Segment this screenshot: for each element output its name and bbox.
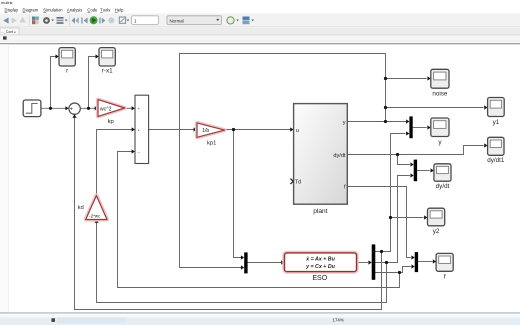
toolbar: mode dropdown "Normal" [167,16,222,25]
wire dy/dt branch down to mux M2 in1 [398,155,410,165]
svg-text:Normal: Normal [170,18,184,23]
svg-text:-2*wc: -2*wc [89,213,101,218]
svg-text:mulink: mulink [1,0,13,5]
wire z1 branch to scope y2 [391,217,424,219]
arrow into mux M2 in1 [410,162,413,166]
canvas bottom border [0,312,520,314]
toolbar icon: stop (disabled) [108,17,114,23]
step source block [23,100,41,117]
svg-text:wc^2: wc^2 [100,106,112,112]
svg-text:y = Cx + Du: y = Cx + Du [305,264,336,270]
wire mux M3 to scope f [418,261,432,263]
svg-text:kp1: kp1 [207,140,216,146]
wire plant y to mux M1 [347,121,406,123]
arrow into sum [65,106,68,110]
scope r-x1 [99,48,115,75]
arrow into mux M3 in1 [411,255,414,259]
arrow into ESO mux in1 [241,255,244,259]
wire branch to scope noise [386,78,427,80]
toolbar icon: run (green) [90,16,98,24]
arrow into scope dy/dt [431,168,434,172]
arrow into ESO mux in2 [241,265,244,269]
svg-text:dy/dt: dy/dt [333,153,346,159]
wire z1 down to w4 feedback to sum [75,118,382,310]
toolbar icon: refresh round + dropdown [227,17,234,24]
wire gain kp to add A1 [125,107,132,109]
svg-text:iagram: iagram [26,7,39,12]
arrow into scope y [427,125,430,129]
scope noise [431,69,449,97]
svg-text:imulation: imulation [46,7,63,12]
toolbar icon: step back [81,18,82,24]
arrow into scope r-x1 [96,54,99,58]
arrow into mux M3 in2 [411,264,414,268]
toolbar icon: model browser list + dropdown [57,17,64,19]
arrow into scope y1 [484,105,487,109]
svg-text:Td: Td [295,179,302,185]
svg-text:ẋ = Ax + Bu: ẋ = Ax + Bu [305,257,335,263]
scope y [431,118,449,146]
add block [135,95,149,163]
gain kd (-2*wc) [86,196,107,220]
wire mux M2 to scope dy/dt [417,170,429,172]
svg-text:ode: ode [91,7,99,12]
wire demux z3 out to mux M3 in2 [375,267,410,273]
svg-text:kd: kd [78,205,84,211]
svg-text:y1: y1 [493,119,500,126]
scope y2 [428,208,445,235]
status bar [0,313,520,325]
svg-text:plant: plant [313,208,327,215]
arrow into mux M1 in1 [406,119,409,123]
wire ESO mux to ESO [248,262,281,264]
mux M3 (f) [415,252,418,272]
svg-text:f: f [444,274,446,281]
toolbar icon: library (colored squares) [32,17,35,20]
arrow into scope f [433,259,436,263]
arrow into plant u [290,127,293,131]
demux ESO output [372,244,376,279]
svg-text:174%: 174% [333,317,344,322]
scope f [436,253,453,280]
svg-text:..._Cont: ..._Cont [1,30,13,34]
svg-text:y: y [343,120,346,126]
arrow into ESO [281,260,284,264]
arrow into add A3 [132,149,135,153]
arrow into mux M2 in2 [410,173,413,177]
arrow up into gain kd [94,220,98,223]
arrow into add A2 [132,127,135,131]
svg-text:ESO: ESO [312,275,327,282]
scope dy/dt [434,164,451,190]
toolbar icon: step forward [99,18,100,24]
wire gain kd up to add A2 [97,130,132,196]
svg-text:kp: kp [108,119,114,125]
wire z2 down to w3 feedback to gain kd [97,223,387,303]
wire u branch down to ESO mux in1 [234,130,241,258]
wire demux z1 out [375,134,405,252]
toolbar background [0,14,520,28]
mux M2 (dy/dt) [414,160,417,182]
wire step to sum [41,107,66,109]
arrow into scope y2 [424,215,427,219]
gain kp1 (1/b) [197,123,225,137]
wire demux z2 out to mux M2 in2 [375,176,409,263]
junction z1 branch [380,250,383,253]
wire branch to scope r-x1 [89,57,97,109]
svg-text:noise: noise [432,91,448,98]
mux M1 (y) [409,116,412,138]
junction y branch [384,120,387,123]
svg-text:dy/dt: dy/dt [436,183,450,190]
wire plant dy/dt to dy/dt1 jog [347,146,483,155]
svg-text:×: × [14,30,16,34]
arrow into scope noise [427,76,430,80]
wire branch to scope r [51,57,57,109]
junction y2 branch [389,216,392,219]
wire sum to gain kp [80,107,95,109]
wire add to gain kp1 [149,129,194,131]
breadcrumb bar [0,35,520,41]
junction z3 branch [398,271,401,274]
toolbar icon: forward (disabled) [12,17,17,23]
toolbar separator [69,16,71,26]
wire w2 riser to add A3 [118,152,132,288]
sum junction [69,103,80,114]
arrow into mux M1 in2 [406,131,409,135]
wire plant f to mux M3 in1 [347,187,410,258]
junction u branch [232,128,235,131]
arrow up into sum from w4 [72,114,76,117]
wire y riser with noise and y1 branches [180,54,386,268]
junction sum to r-x1 [87,107,90,110]
scope r [59,48,75,75]
scope y1 [488,98,505,126]
svg-text:y2: y2 [433,228,440,235]
status bar left glyph [52,318,55,322]
wire branch to scope y1 [386,107,484,109]
junction noise branch [384,77,387,80]
svg-text:ools: ools [103,7,111,12]
junction step to r [49,107,52,110]
svg-text:u: u [296,128,299,134]
junction dy/dt branch [396,153,399,156]
svg-text:isplay: isplay [8,7,19,12]
ESO state-space block [285,253,357,272]
toolbar icon: fast restart [72,17,76,23]
svg-text:1/b: 1/b [202,128,209,134]
wire z3 down to w2 feedback [118,273,400,288]
arrow into scope dy/dt1 [484,143,487,147]
canvas top border [0,43,520,45]
toolbar icon: configure gear + dropdown [43,17,50,24]
svg-text:r: r [66,68,68,75]
svg-text:r-x1: r-x1 [102,68,113,75]
toolbar icon: build (blue) + dropdown [243,17,250,20]
arrow into scope r [56,54,59,58]
toolbar icon: up (disabled) [19,17,25,22]
arrow into gain kp1 [194,127,197,131]
svg-text:dy/dt1: dy/dt1 [487,157,505,164]
svg-text:nalysis: nalysis [70,7,83,12]
tab bar [0,28,520,35]
wire mux M1 to scope y [413,127,427,129]
menu bar [5,7,125,12]
toolbar: stop-time field [132,16,159,25]
svg-text:elp: elp [118,7,124,12]
arrow into add A1 [132,106,135,110]
junction y1 branch [384,106,387,109]
junction z2 branch [385,261,388,264]
scope dy/dt1 [487,137,505,164]
toolbar icon: back [3,17,8,23]
arrow into gain kp [95,106,98,110]
gain kp (wc^2) [98,100,125,117]
toolbar icon: sim window + dropdown [119,17,125,23]
arrow into demux [368,260,371,264]
left palette strip [0,44,9,312]
wire ESO to demux [357,262,368,264]
wire gain kp1 to plant u [225,129,291,131]
mux ESO input [244,252,247,273]
